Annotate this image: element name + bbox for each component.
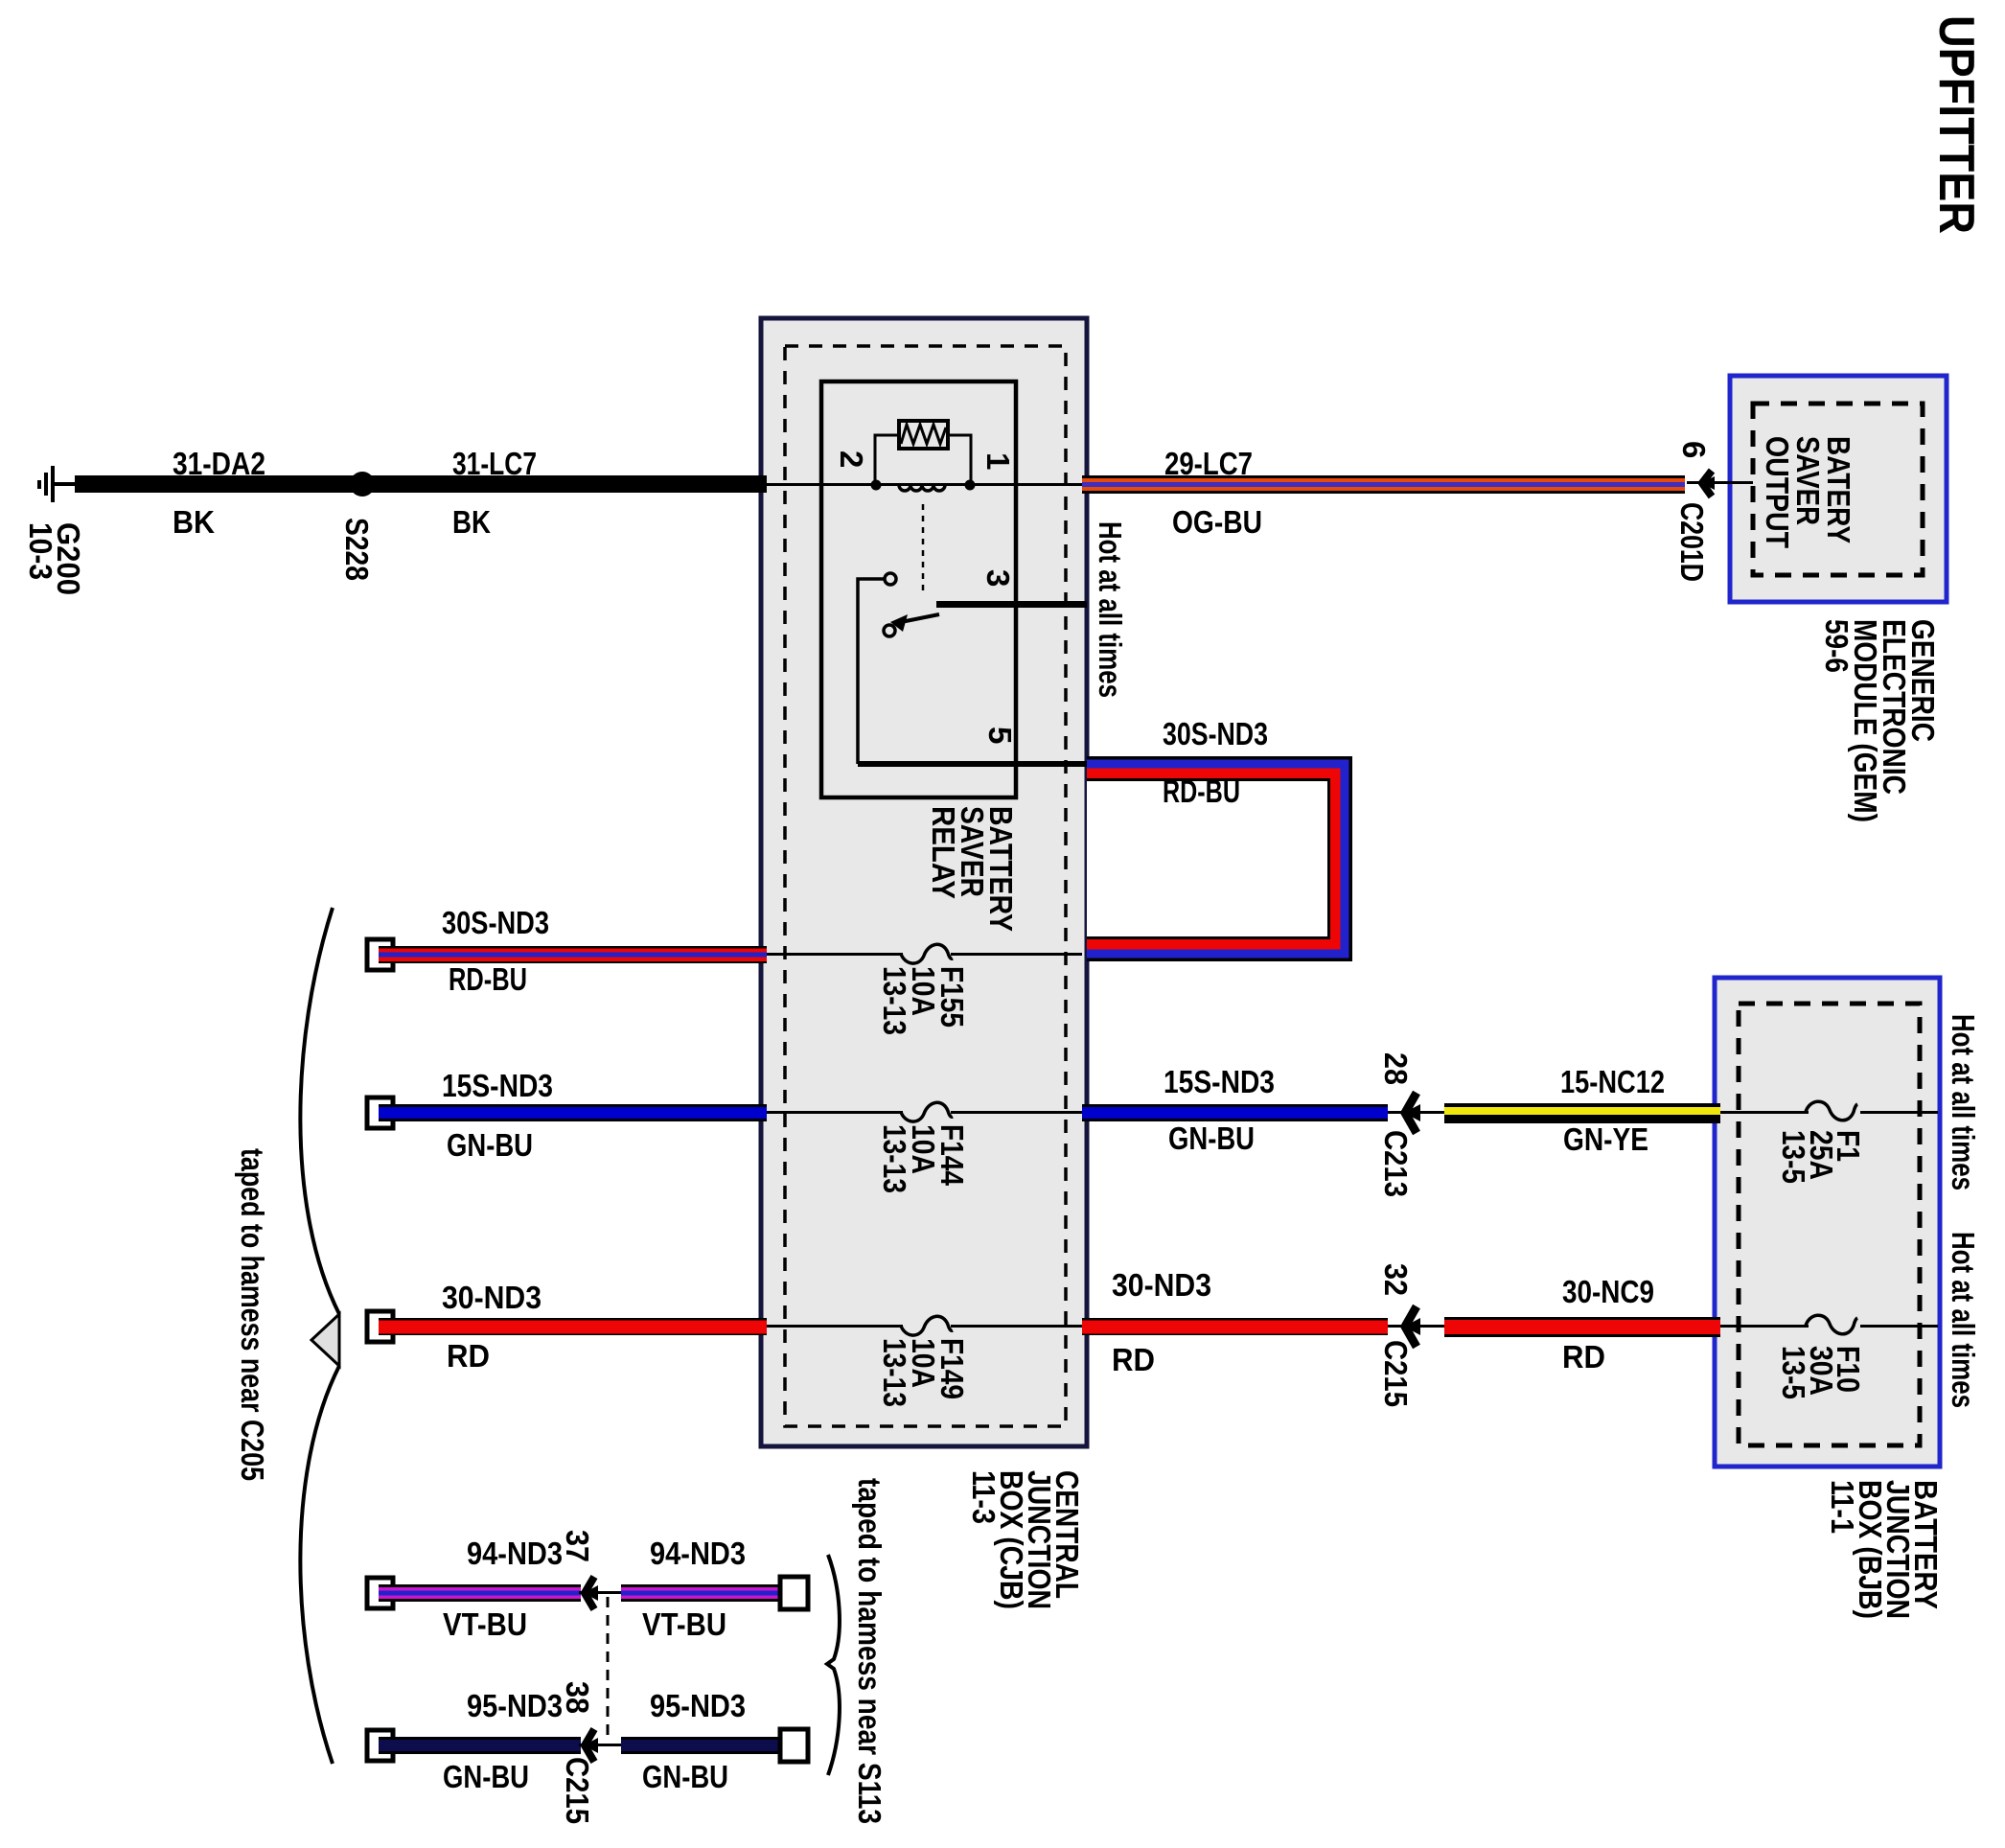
wire 15-NC12 GN-YE — [1444, 1103, 1720, 1123]
switch arm — [890, 614, 939, 632]
svg-text:GN-BU: GN-BU — [443, 1759, 529, 1794]
row4 left connector eyelet — [367, 1578, 393, 1608]
svg-text:30S-ND3: 30S-ND3 — [442, 905, 549, 940]
svg-text:C213: C213 — [1378, 1130, 1414, 1197]
svg-text:38: 38 — [560, 1681, 595, 1714]
svg-text:10-3: 10-3 — [23, 522, 58, 580]
label CENTRAL JUNCTION BOX CJB 11-3 — [966, 1470, 1085, 1609]
svg-text:15-NC12: 15-NC12 — [1560, 1064, 1665, 1099]
wire 15S-ND3 GN-BU right — [1082, 1104, 1388, 1121]
svg-text:OG-BU: OG-BU — [1172, 504, 1262, 540]
wire 29-LC7 OG-BU — [1082, 475, 1685, 494]
row5 right connector eyelet — [780, 1729, 808, 1762]
connector arrow C201D — [1701, 471, 1715, 497]
label F1 25A 13-5 — [1776, 1130, 1866, 1184]
svg-text:GN-BU: GN-BU — [447, 1127, 533, 1163]
wire 15S-ND3 GN-BU left — [379, 1104, 767, 1121]
svg-text:1: 1 — [980, 452, 1016, 470]
svg-text:94-ND3: 94-ND3 — [650, 1536, 746, 1571]
svg-text:3: 3 — [980, 569, 1016, 587]
left group brace taped to harness near C205 — [300, 908, 339, 1764]
relay row internal wire — [767, 483, 1082, 486]
CJB internal line row3 — [767, 1325, 1082, 1328]
svg-text:31-DA2: 31-DA2 — [173, 446, 265, 481]
svg-text:32: 32 — [1378, 1263, 1414, 1296]
wire 30-NC9 RD — [1444, 1317, 1720, 1337]
connector arrow 32 C215 — [1404, 1306, 1420, 1347]
label F149 10A 13-13 — [877, 1338, 970, 1407]
fuse F149 — [901, 1316, 953, 1335]
line through connector 37 — [579, 1591, 623, 1594]
relay pin 3 wire hot at all times — [936, 601, 1087, 608]
label BATTERY SAVER RELAY — [926, 806, 1019, 932]
CJB internal line row1 — [767, 953, 1082, 956]
wire 94-ND3 VT-BU right — [621, 1584, 796, 1602]
svg-text:C201D: C201D — [1674, 502, 1710, 582]
svg-text:13-13: 13-13 — [877, 1338, 912, 1407]
line from connector C201D into GEM — [1687, 481, 1753, 484]
svg-text:59-6: 59-6 — [1819, 619, 1855, 673]
svg-text:2: 2 — [834, 450, 869, 468]
label F10 30A 13-5 — [1776, 1346, 1866, 1399]
GEM inner dashed border — [1753, 404, 1923, 575]
svg-text:13-13: 13-13 — [877, 1124, 912, 1193]
right group brace taped to harness near S113 — [827, 1555, 840, 1775]
svg-text:13-5: 13-5 — [1776, 1130, 1811, 1184]
svg-text:Hot at all times: Hot at all times — [1946, 1232, 1981, 1408]
label F144 10A 13-13 — [877, 1124, 970, 1193]
line through connector 38 — [579, 1744, 623, 1746]
battery junction box BJB — [1715, 978, 1940, 1467]
svg-text:30-ND3: 30-ND3 — [1112, 1267, 1211, 1303]
connector arrow 38 — [584, 1729, 598, 1762]
wire 30-ND3 RD left — [379, 1318, 767, 1335]
switch moving contact — [884, 625, 895, 636]
svg-text:15S-ND3: 15S-ND3 — [1164, 1064, 1275, 1099]
svg-text:95-ND3: 95-ND3 — [650, 1688, 746, 1723]
svg-text:RD: RD — [1112, 1342, 1155, 1377]
svg-text:Hot at all times: Hot at all times — [1093, 521, 1128, 698]
coil terminal pin 2 — [871, 480, 882, 491]
ground symbol G200 — [37, 466, 76, 502]
svg-text:30-ND3: 30-ND3 — [442, 1280, 542, 1315]
BJB internal line F1 — [1720, 1111, 1938, 1114]
row1 connector eyelet — [367, 939, 393, 970]
svg-text:RD-BU: RD-BU — [449, 961, 527, 997]
generic electronic module GEM box — [1730, 376, 1947, 602]
svg-text:RD: RD — [1562, 1339, 1605, 1374]
relay actuation dashed line — [922, 504, 925, 596]
svg-text:GN-BU: GN-BU — [642, 1759, 728, 1794]
svg-text:95-ND3: 95-ND3 — [467, 1688, 563, 1723]
connector arrow 37 — [584, 1577, 598, 1609]
svg-text:Hot at all times: Hot at all times — [1946, 1014, 1981, 1190]
wire 30S-ND3 RD-BU left — [379, 946, 767, 963]
svg-text:S228: S228 — [339, 518, 375, 581]
svg-text:30-NC9: 30-NC9 — [1562, 1274, 1654, 1309]
switch fixed contact — [885, 573, 896, 585]
wire 30S-ND3 RD-BU loop to relay pin 5 — [1087, 756, 1352, 961]
relay pin 5 wire — [858, 579, 1087, 767]
fuse F10 — [1806, 1315, 1857, 1334]
row2 connector eyelet — [367, 1097, 393, 1128]
relay coil — [899, 485, 945, 491]
wire 31-DA2 BK — [75, 475, 357, 493]
relay coil suppression resistor — [899, 421, 948, 449]
label GENERIC ELECTRONIC MODULE GEM 59-6 — [1819, 619, 1941, 822]
label G200 10-3 — [23, 522, 86, 595]
line through connector C213 — [1388, 1111, 1444, 1114]
row4 right connector eyelet — [780, 1577, 808, 1609]
dashed link C215 between arrows 37 38 — [607, 1597, 610, 1737]
svg-text:37: 37 — [560, 1530, 595, 1562]
wire 95-ND3 GN-BU dark right — [621, 1737, 796, 1754]
svg-text:28: 28 — [1378, 1052, 1414, 1085]
CJB inner dashed border — [785, 346, 1066, 1426]
central junction box CJB — [761, 318, 1087, 1446]
svg-text:31-LC7: 31-LC7 — [452, 446, 537, 481]
svg-text:VT-BU: VT-BU — [642, 1606, 726, 1642]
svg-text:29-LC7: 29-LC7 — [1164, 446, 1253, 481]
svg-text:taped to hamess near S113: taped to hamess near S113 — [852, 1478, 887, 1824]
label BATERY SAVER OUTPUT — [1760, 436, 1856, 548]
svg-text:OUTPUT: OUTPUT — [1760, 436, 1795, 548]
wire 95-ND3 GN-BU dark left — [379, 1737, 581, 1754]
battery saver relay box — [821, 381, 1016, 797]
connector arrow 28 C213 — [1404, 1093, 1420, 1133]
svg-text:13-5: 13-5 — [1776, 1346, 1811, 1399]
row3 connector eyelet — [367, 1311, 393, 1342]
svg-text:BK: BK — [173, 504, 215, 540]
svg-text:taped to hamess near C205: taped to hamess near C205 — [235, 1148, 270, 1481]
svg-text:C215: C215 — [560, 1757, 595, 1824]
svg-text:13-13: 13-13 — [877, 966, 912, 1035]
wire 94-ND3 VT-BU left — [379, 1584, 581, 1602]
svg-text:GN-YE: GN-YE — [1563, 1121, 1648, 1157]
resistor leads — [875, 435, 971, 480]
svg-text:C215: C215 — [1378, 1340, 1414, 1407]
fuse F155 — [901, 944, 953, 963]
line through connector C215 — [1388, 1325, 1444, 1328]
wire 31-LC7 BK — [367, 475, 767, 493]
label BATTERY JUNCTION BOX BJB 11-1 — [1825, 1480, 1944, 1619]
svg-text:RD: RD — [447, 1338, 490, 1374]
svg-text:UPFITTER: UPFITTER — [1928, 15, 1984, 234]
svg-text:RELAY: RELAY — [926, 806, 961, 899]
svg-text:RD-BU: RD-BU — [1163, 774, 1240, 809]
svg-text:11-1: 11-1 — [1825, 1480, 1860, 1534]
svg-text:5: 5 — [982, 727, 1018, 744]
svg-text:6: 6 — [1676, 441, 1712, 458]
svg-text:11-3: 11-3 — [966, 1470, 1002, 1524]
coil terminal pin 1 — [965, 480, 976, 491]
wire 30-ND3 RD right — [1082, 1318, 1388, 1335]
BJB internal line F10 — [1720, 1325, 1938, 1328]
fuse F1 — [1806, 1101, 1857, 1120]
svg-text:30S-ND3: 30S-ND3 — [1163, 716, 1268, 751]
svg-text:BK: BK — [452, 504, 491, 540]
BJB inner dashed border — [1739, 1004, 1920, 1445]
label F155 10A 13-13 — [877, 966, 970, 1035]
splice S228 — [350, 472, 375, 497]
svg-text:GN-BU: GN-BU — [1168, 1120, 1255, 1156]
svg-text:94-ND3: 94-ND3 — [467, 1536, 563, 1571]
svg-text:15S-ND3: 15S-ND3 — [442, 1068, 553, 1103]
CJB internal line row2 — [767, 1111, 1082, 1114]
svg-text:VT-BU: VT-BU — [443, 1606, 527, 1642]
row5 left connector eyelet — [367, 1730, 393, 1761]
fuse F144 — [901, 1102, 953, 1121]
